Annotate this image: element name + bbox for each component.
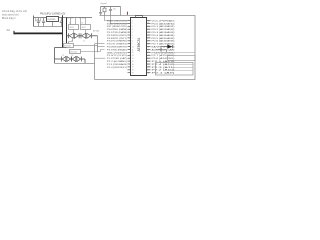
svg-text:11: 11 <box>132 49 134 51</box>
svg-text:37: 37 <box>147 29 149 31</box>
svg-text:MOC302: MOC302 <box>70 52 77 54</box>
svg-text:5: 5 <box>132 32 133 34</box>
svg-text:6: 6 <box>132 35 133 37</box>
svg-text:PW.SUPLY LM7805 +5V: PW.SUPLY LM7805 +5V <box>40 13 66 15</box>
svg-text:P3.1/TXD (DATA): P3.1/TXD (DATA) <box>107 31 127 34</box>
svg-text:12: 12 <box>132 52 134 54</box>
svg-text:18: 18 <box>132 70 134 72</box>
svg-text:GND (VSS/0V): GND (VSS/0V) <box>107 52 127 54</box>
svg-text:P0.7 (AD7/AN7): P0.7 (AD7/AN7) <box>152 43 175 46</box>
svg-text:MOC302: MOC302 <box>64 46 71 48</box>
svg-text:ALE/PROG (A8): ALE/PROG (A8) <box>152 48 175 51</box>
svg-text:P2.1 (A9): P2.1 (A9) <box>152 72 176 75</box>
svg-text:22: 22 <box>147 73 149 75</box>
svg-text:AT89C51: AT89C51 <box>137 37 141 51</box>
svg-text:BT136: BT136 <box>93 31 100 33</box>
svg-text:Block diag 1: Block diag 1 <box>2 17 16 20</box>
svg-text:P0.1 (AD1/AN1): P0.1 (AD1/AN1) <box>152 25 175 28</box>
svg-text:P1.1/T2EX (CAP): P1.1/T2EX (CAP) <box>107 57 127 60</box>
svg-text:40: 40 <box>147 20 149 22</box>
svg-text:P3.2/INT0 (INT0): P3.2/INT0 (INT0) <box>107 35 127 37</box>
svg-text:31: 31 <box>147 46 149 48</box>
svg-text:P0.0 (AD0/AN0): P0.0 (AD0/AN0) <box>152 22 175 25</box>
svg-text:4: 4 <box>132 29 133 31</box>
svg-text:T4: T4 <box>71 55 73 57</box>
svg-text:P3.0/RXD (DATA): P3.0/RXD (DATA) <box>107 28 127 31</box>
svg-text:33p: 33p <box>113 8 116 10</box>
svg-text:XTAL2 (OSC/CLK2): XTAL2 (OSC/CLK2) <box>107 22 127 25</box>
svg-text:P3.6/WR (WRITE): P3.6/WR (WRITE) <box>107 47 127 49</box>
svg-text:P0.6 (AD6/AN6): P0.6 (AD6/AN6) <box>152 40 175 43</box>
svg-text:C6: C6 <box>81 23 83 25</box>
svg-text:RST (RESET/VPD): RST (RESET/VPD) <box>107 26 127 28</box>
svg-text:2: 2 <box>132 23 133 25</box>
svg-text:19: 19 <box>132 73 134 75</box>
svg-text:P1.0/T2 (CLKO): P1.0/T2 (CLKO) <box>107 55 127 57</box>
svg-text:P3.3/INT1 (INT1): P3.3/INT1 (INT1) <box>107 38 127 40</box>
svg-text:28: 28 <box>147 55 149 57</box>
svg-text:17: 17 <box>132 67 134 69</box>
svg-text:U2: U2 <box>62 42 64 44</box>
svg-text:27: 27 <box>147 58 149 60</box>
svg-text:23: 23 <box>147 70 149 72</box>
svg-text:13: 13 <box>132 55 134 57</box>
svg-text:LM7805: LM7805 <box>47 19 56 21</box>
svg-text:7: 7 <box>132 38 133 40</box>
svg-text:T3: T3 <box>62 55 64 57</box>
svg-text:3: 3 <box>132 26 133 28</box>
svg-text:36: 36 <box>147 32 149 34</box>
svg-text:35: 35 <box>147 35 149 37</box>
svg-text:32: 32 <box>147 44 149 46</box>
svg-text:P1.2 (ECI/AN2): P1.2 (ECI/AN2) <box>107 60 127 63</box>
svg-text:P0.2 (AD2/AN2): P0.2 (AD2/AN2) <box>152 28 175 31</box>
svg-text:33: 33 <box>147 41 149 43</box>
svg-text:T2: T2 <box>83 41 85 43</box>
svg-text:39: 39 <box>147 23 149 25</box>
svg-text:P1.4 (SS/CEX1): P1.4 (SS/CEX1) <box>107 67 127 69</box>
svg-text:P3.5/T1 (TIMER1): P3.5/T1 (TIMER1) <box>107 44 127 46</box>
svg-text:R1 10K: R1 10K <box>67 17 74 19</box>
svg-text:25: 25 <box>147 64 149 66</box>
svg-text:P0.5 (AD5/AN5): P0.5 (AD5/AN5) <box>152 37 175 40</box>
svg-text:34: 34 <box>147 38 149 40</box>
svg-text:29: 29 <box>147 52 149 54</box>
svg-text:P0.4 (AD4/AN4): P0.4 (AD4/AN4) <box>152 34 175 37</box>
svg-text:AC: AC <box>7 28 11 32</box>
svg-text:Crystal: Crystal <box>100 2 107 5</box>
svg-text:P3.4/T0 (TIMER0): P3.4/T0 (TIMER0) <box>107 41 127 43</box>
svg-text:16: 16 <box>132 64 134 66</box>
svg-text:26: 26 <box>147 61 149 63</box>
svg-text:VCC (PWR/AD): VCC (PWR/AD) <box>152 19 175 22</box>
svg-text:14: 14 <box>132 58 134 60</box>
svg-text:30: 30 <box>147 49 149 51</box>
svg-text:P2.2 (A10): P2.2 (A10) <box>152 69 176 72</box>
svg-text:EA/VPP (PROG): EA/VPP (PROG) <box>152 46 175 49</box>
svg-text:9: 9 <box>132 44 133 46</box>
svg-text:8: 8 <box>132 41 133 43</box>
svg-text:MOC: MOC <box>82 27 87 29</box>
svg-text:15: 15 <box>132 61 134 63</box>
svg-text:P0.3 (AD3/AN3): P0.3 (AD3/AN3) <box>152 31 175 34</box>
svg-text:10: 10 <box>132 46 134 48</box>
svg-text:24: 24 <box>147 67 149 69</box>
svg-text:C5: C5 <box>69 23 71 25</box>
svg-text:1u: 1u <box>169 50 171 52</box>
svg-text:P2.6 (A14/CEX): P2.6 (A14/CEX) <box>152 57 175 60</box>
svg-text:1: 1 <box>132 20 133 22</box>
svg-text:XTAL1 (OSC/CLK1): XTAL1 (OSC/CLK1) <box>107 19 127 22</box>
svg-text:38: 38 <box>147 26 149 28</box>
svg-text:P3.7/RD (READ): P3.7/RD (READ) <box>107 48 127 51</box>
svg-text:P1.3 (CEX0/AN3): P1.3 (CEX0/AN3) <box>107 63 127 66</box>
svg-text:MOC: MOC <box>70 27 75 29</box>
svg-text:R2 10K: R2 10K <box>79 17 86 19</box>
svg-text:P2.7 (A15/CEX): P2.7 (A15/CEX) <box>152 54 175 57</box>
